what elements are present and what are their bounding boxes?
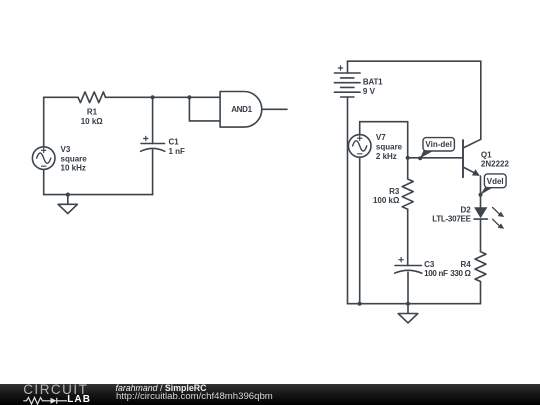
svg-text:R1: R1 <box>87 108 98 117</box>
battery BAT1 <box>334 66 360 97</box>
wire down to base node <box>407 122 409 158</box>
resistor R4 <box>475 252 486 282</box>
node V7 bottom junction <box>358 302 362 306</box>
svg-text:Vdel: Vdel <box>487 177 504 186</box>
wire R3 top lead <box>407 158 409 179</box>
wire emitter vertical <box>480 176 482 207</box>
wire C1 lower <box>152 150 154 195</box>
op-amp AND1 gate <box>220 92 262 128</box>
node AND input junction <box>187 95 191 99</box>
svg-text:10 kΩ: 10 kΩ <box>81 117 104 126</box>
footer url <box>116 392 273 402</box>
wire V7 top vertical <box>359 122 361 135</box>
svg-text:100 kΩ: 100 kΩ <box>373 196 400 205</box>
wire V7 bottom vertical <box>359 157 361 304</box>
svg-text:C1: C1 <box>169 138 180 147</box>
node ground junction <box>66 193 70 197</box>
node ground junction right <box>406 302 410 306</box>
svg-text:100 nF: 100 nF <box>424 269 448 278</box>
svg-text:330 Ω: 330 Ω <box>450 269 471 278</box>
svg-text:LTL-307EE: LTL-307EE <box>432 215 471 224</box>
svg-text:D2: D2 <box>460 206 471 215</box>
net flag Vdel <box>479 174 507 197</box>
wire V7 top horizontal <box>360 121 408 123</box>
wire R4 bottom lead <box>480 282 482 304</box>
wire battery minus vertical <box>347 97 349 304</box>
ground right <box>398 304 418 323</box>
logo CIRCUIT <box>23 383 88 397</box>
voltage source V3 <box>32 147 55 170</box>
wire R3 to C3 <box>407 209 409 265</box>
wire LED to R4 <box>480 219 482 252</box>
svg-text:9 V: 9 V <box>363 87 376 96</box>
svg-text:2N2222: 2N2222 <box>481 160 510 169</box>
wire AND1 output <box>262 108 287 110</box>
wire collector vertical <box>480 61 482 139</box>
svg-text:2 kHz: 2 kHz <box>376 152 397 161</box>
svg-text:Vin-del: Vin-del <box>425 140 452 149</box>
logo resistor-diode <box>22 396 72 405</box>
ground left <box>58 195 77 214</box>
wire top rail left <box>44 96 78 98</box>
svg-text:square: square <box>376 143 403 152</box>
wire C3 lower <box>407 272 409 304</box>
wire base <box>408 157 463 159</box>
svg-text:V7: V7 <box>376 133 386 142</box>
node base junction <box>406 156 410 160</box>
footer title <box>116 384 207 393</box>
wire V3 bottom vertical <box>43 169 45 194</box>
wire AND lower input horizontal <box>189 120 220 122</box>
node C1 junction <box>151 95 155 99</box>
resistor R3 <box>402 179 413 209</box>
svg-text:R4: R4 <box>460 260 471 269</box>
logo LAB <box>67 395 91 405</box>
net flag Vin-del <box>418 138 454 161</box>
footer bar <box>0 384 540 405</box>
svg-text:Q1: Q1 <box>481 150 492 159</box>
wire C1 upper <box>152 97 154 143</box>
voltage source V7 <box>348 135 371 158</box>
transistor Q1 <box>463 139 481 177</box>
capacitor C3 <box>395 258 422 274</box>
svg-text:R3: R3 <box>389 187 400 196</box>
svg-text:V3: V3 <box>61 145 71 154</box>
svg-text:1 nF: 1 nF <box>169 147 186 156</box>
wire battery plus stem <box>347 61 349 73</box>
wire top rail right circuit <box>348 60 481 62</box>
wire V3 top vertical <box>43 97 45 147</box>
capacitor C1 <box>141 136 165 151</box>
wire bottom rail right circuit <box>347 303 480 305</box>
svg-text:BAT1: BAT1 <box>363 78 383 87</box>
resistor R1 <box>78 92 105 103</box>
LED D2 <box>474 207 504 229</box>
svg-text:C3: C3 <box>424 260 435 269</box>
svg-text:10 kHz: 10 kHz <box>61 164 86 173</box>
wire top rail right <box>106 96 221 98</box>
wire bottom rail left <box>44 194 153 196</box>
svg-text:square: square <box>61 154 88 163</box>
wire AND lower input vertical <box>188 97 190 121</box>
svg-text:AND1: AND1 <box>231 105 252 114</box>
